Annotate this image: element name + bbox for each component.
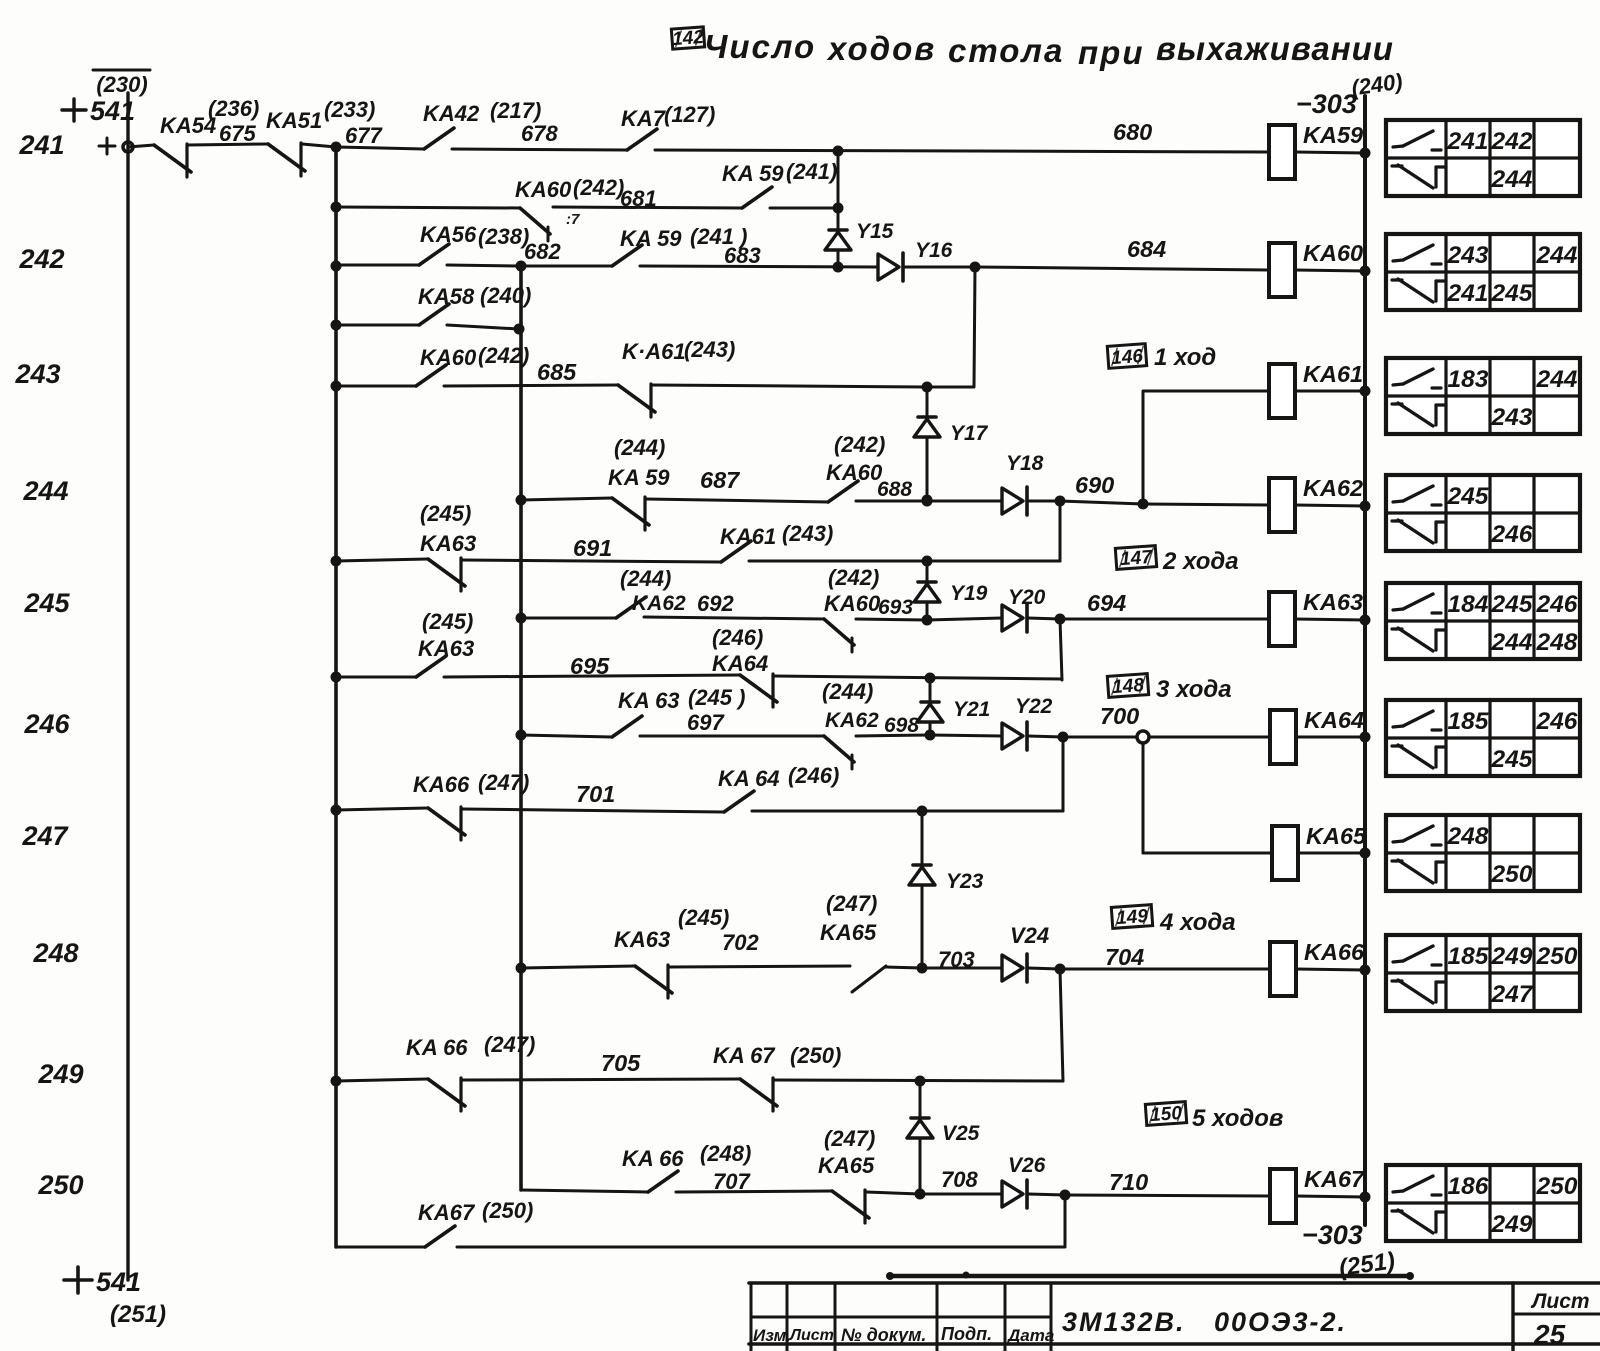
svg-text:(217): (217) bbox=[490, 98, 541, 123]
svg-text:KA62: KA62 bbox=[825, 709, 879, 732]
svg-text:703: 703 bbox=[938, 947, 975, 972]
svg-text:KA60: KA60 bbox=[824, 591, 881, 616]
svg-text:(250): (250) bbox=[790, 1043, 841, 1068]
svg-text:KA60: KA60 bbox=[826, 460, 883, 485]
svg-text:(245): (245) bbox=[422, 609, 473, 634]
svg-text:681: 681 bbox=[620, 186, 657, 211]
svg-text:KA 66: KA 66 bbox=[622, 1146, 684, 1171]
svg-text:KA 64: KA 64 bbox=[718, 766, 780, 791]
svg-text:KA61: KA61 bbox=[1303, 361, 1363, 387]
svg-text:(245): (245) bbox=[678, 905, 729, 930]
svg-text:250: 250 bbox=[1491, 861, 1533, 888]
svg-text:246: 246 bbox=[23, 709, 70, 739]
svg-text:244: 244 bbox=[1536, 242, 1578, 269]
svg-text:244: 244 bbox=[1491, 166, 1533, 193]
svg-text:708: 708 bbox=[941, 1167, 978, 1192]
svg-text:KA66: KA66 bbox=[413, 772, 470, 797]
svg-text:682: 682 bbox=[524, 239, 561, 264]
svg-text:698: 698 bbox=[884, 714, 919, 737]
svg-text:при: при bbox=[1078, 34, 1144, 71]
svg-text:675: 675 bbox=[219, 121, 256, 146]
svg-text:(244): (244) bbox=[620, 566, 671, 591]
svg-text:704: 704 bbox=[1105, 944, 1144, 970]
svg-text:702: 702 bbox=[722, 930, 759, 955]
svg-text:2 хода: 2 хода bbox=[1162, 548, 1239, 575]
svg-text:−303: −303 bbox=[1296, 89, 1357, 119]
svg-text::7: :7 bbox=[566, 211, 580, 228]
svg-text:(247): (247) bbox=[824, 1126, 875, 1151]
svg-text:(250): (250) bbox=[482, 1198, 533, 1223]
svg-text:Y23: Y23 bbox=[946, 870, 984, 893]
svg-text:242: 242 bbox=[18, 244, 64, 274]
svg-text:Y17: Y17 bbox=[950, 422, 989, 445]
svg-text:Лист: Лист bbox=[1530, 1290, 1590, 1313]
svg-text:Лист: Лист bbox=[789, 1327, 834, 1344]
svg-text:(246): (246) bbox=[712, 625, 763, 650]
svg-text:Y22: Y22 bbox=[1015, 695, 1053, 718]
svg-text:710: 710 bbox=[1109, 1169, 1148, 1195]
svg-text:250: 250 bbox=[1536, 943, 1578, 970]
svg-text:KA62: KA62 bbox=[632, 592, 686, 615]
svg-text:KA58: KA58 bbox=[418, 284, 475, 309]
svg-text:694: 694 bbox=[1087, 590, 1126, 616]
svg-text:677: 677 bbox=[345, 123, 383, 148]
svg-text:KA60: KA60 bbox=[420, 345, 477, 370]
svg-text:241: 241 bbox=[1447, 128, 1489, 155]
svg-text:(251): (251) bbox=[110, 1301, 166, 1328]
svg-text:(238): (238) bbox=[478, 224, 529, 249]
svg-text:(242): (242) bbox=[828, 565, 879, 590]
svg-text:KA63: KA63 bbox=[614, 927, 670, 952]
svg-text:KA67: KA67 bbox=[418, 1200, 476, 1225]
svg-text:V26: V26 bbox=[1008, 1154, 1046, 1177]
svg-text:248: 248 bbox=[1447, 823, 1489, 850]
svg-text:Подп.: Подп. bbox=[941, 1324, 992, 1344]
svg-text:(247): (247) bbox=[478, 770, 529, 795]
svg-text:243: 243 bbox=[1447, 242, 1489, 269]
svg-text:(246): (246) bbox=[788, 763, 839, 788]
svg-text:KA66: KA66 bbox=[1304, 939, 1365, 965]
svg-text:241: 241 bbox=[18, 130, 64, 160]
svg-text:245: 245 bbox=[1447, 483, 1489, 510]
svg-text:149: 149 bbox=[1116, 906, 1150, 929]
svg-text:(244): (244) bbox=[614, 435, 665, 460]
svg-text:KA7: KA7 bbox=[621, 106, 667, 131]
svg-text:680: 680 bbox=[1113, 119, 1152, 145]
svg-text:(245): (245) bbox=[420, 501, 471, 526]
svg-text:KA65: KA65 bbox=[1306, 823, 1367, 849]
svg-text:248: 248 bbox=[32, 938, 78, 968]
svg-text:185: 185 bbox=[1448, 708, 1489, 735]
svg-text:KA 59: KA 59 bbox=[722, 161, 784, 186]
svg-text:707: 707 bbox=[713, 1169, 751, 1194]
svg-text:249: 249 bbox=[1491, 943, 1533, 970]
svg-text:(245 ): (245 ) bbox=[688, 685, 745, 710]
svg-text:Y21: Y21 bbox=[953, 698, 990, 721]
svg-text:V24: V24 bbox=[1010, 923, 1049, 948]
svg-text:KA61: KA61 bbox=[720, 524, 776, 549]
svg-text:245: 245 bbox=[1491, 746, 1533, 773]
svg-text:KA 59: KA 59 bbox=[620, 226, 682, 251]
svg-text:стола: стола bbox=[948, 32, 1064, 69]
svg-text:(247): (247) bbox=[484, 1032, 535, 1057]
svg-text:678: 678 bbox=[521, 121, 558, 146]
svg-text:KA62: KA62 bbox=[1303, 475, 1363, 501]
svg-text:700: 700 bbox=[1100, 703, 1139, 729]
svg-text:244: 244 bbox=[1536, 366, 1578, 393]
svg-text:Дата: Дата bbox=[1006, 1326, 1054, 1345]
svg-text:241: 241 bbox=[1447, 280, 1489, 307]
svg-text:25: 25 bbox=[1533, 1319, 1566, 1350]
svg-text:выхаживании: выхаживании bbox=[1156, 30, 1394, 67]
svg-text:146: 146 bbox=[1111, 346, 1145, 369]
svg-text:246: 246 bbox=[1536, 591, 1578, 618]
svg-text:5 ходов: 5 ходов bbox=[1192, 1105, 1283, 1132]
svg-text:247: 247 bbox=[21, 821, 69, 851]
svg-text:KA64: KA64 bbox=[1304, 707, 1364, 733]
svg-text:142: 142 bbox=[671, 27, 705, 50]
svg-text:KA60: KA60 bbox=[515, 177, 572, 202]
svg-text:(242): (242) bbox=[834, 432, 885, 457]
svg-text:243: 243 bbox=[1491, 404, 1533, 431]
svg-text:249: 249 bbox=[1491, 1211, 1533, 1238]
svg-text:KA51: KA51 bbox=[266, 108, 322, 133]
svg-text:Число: Число bbox=[704, 28, 816, 65]
svg-text:245: 245 bbox=[1491, 591, 1533, 618]
svg-text:249: 249 bbox=[37, 1059, 83, 1089]
svg-text:(242): (242) bbox=[573, 175, 624, 200]
svg-text:(247): (247) bbox=[826, 891, 877, 916]
svg-text:Y19: Y19 bbox=[950, 582, 988, 605]
svg-text:687: 687 bbox=[700, 467, 740, 493]
svg-text:541: 541 bbox=[96, 1267, 141, 1297]
svg-text:245: 245 bbox=[23, 588, 70, 618]
svg-text:V25: V25 bbox=[942, 1122, 980, 1145]
svg-text:KA 67: KA 67 bbox=[713, 1043, 776, 1068]
svg-text:(241): (241) bbox=[786, 159, 837, 184]
svg-text:(240): (240) bbox=[480, 283, 531, 308]
svg-text:KA65: KA65 bbox=[818, 1153, 875, 1178]
svg-text:246: 246 bbox=[1491, 521, 1533, 548]
svg-text:693: 693 bbox=[878, 596, 913, 619]
svg-text:248: 248 bbox=[1536, 629, 1578, 656]
svg-text:244: 244 bbox=[22, 476, 68, 506]
svg-text:(243): (243) bbox=[782, 521, 833, 546]
svg-text:697: 697 bbox=[687, 710, 725, 735]
svg-text:K·A61: K·A61 bbox=[622, 339, 686, 364]
svg-text:541: 541 bbox=[90, 96, 135, 126]
svg-text:KA63: KA63 bbox=[1303, 589, 1363, 615]
svg-text:246: 246 bbox=[1536, 708, 1578, 735]
svg-text:Y18: Y18 bbox=[1006, 452, 1044, 475]
svg-text:Y20: Y20 bbox=[1008, 586, 1046, 609]
svg-text:1 ход: 1 ход bbox=[1154, 344, 1216, 371]
svg-text:Изм.: Изм. bbox=[753, 1326, 791, 1345]
svg-text:691: 691 bbox=[573, 535, 612, 561]
svg-text:Y16: Y16 bbox=[915, 239, 953, 262]
svg-text:(242): (242) bbox=[478, 343, 529, 368]
svg-text:243: 243 bbox=[14, 359, 60, 389]
svg-text:250: 250 bbox=[37, 1170, 83, 1200]
svg-text:(230): (230) bbox=[96, 72, 147, 97]
svg-text:701: 701 bbox=[576, 781, 615, 807]
svg-text:688: 688 bbox=[877, 478, 912, 501]
svg-text:KA42: KA42 bbox=[423, 101, 480, 126]
svg-text:148: 148 bbox=[1112, 675, 1146, 698]
svg-text:244: 244 bbox=[1491, 629, 1533, 656]
svg-text:KA 63: KA 63 bbox=[618, 688, 680, 713]
svg-text:245: 245 bbox=[1491, 280, 1533, 307]
svg-text:705: 705 bbox=[601, 1050, 641, 1076]
svg-text:(248): (248) bbox=[700, 1141, 751, 1166]
svg-text:ходов: ходов bbox=[826, 30, 936, 67]
svg-text:692: 692 bbox=[697, 591, 734, 616]
svg-text:KA59: KA59 bbox=[1303, 122, 1363, 148]
svg-text:KA65: KA65 bbox=[820, 920, 877, 945]
svg-text:KA67: KA67 bbox=[1304, 1166, 1365, 1192]
svg-text:KA 66: KA 66 bbox=[406, 1035, 468, 1060]
svg-text:685: 685 bbox=[537, 359, 577, 385]
svg-text:KA64: KA64 bbox=[712, 651, 768, 676]
svg-text:(233): (233) bbox=[324, 97, 375, 122]
svg-text:185: 185 bbox=[1448, 943, 1489, 970]
svg-text:KA60: KA60 bbox=[1303, 240, 1363, 266]
svg-text:№ докум.: № докум. bbox=[841, 1325, 926, 1345]
svg-text:(236): (236) bbox=[208, 96, 259, 121]
svg-text:KA 59: KA 59 bbox=[608, 465, 670, 490]
svg-text:−303: −303 bbox=[1302, 1220, 1363, 1250]
svg-text:184: 184 bbox=[1448, 591, 1489, 618]
svg-text:247: 247 bbox=[1491, 981, 1534, 1008]
svg-text:3 хода: 3 хода bbox=[1156, 676, 1232, 703]
svg-text:690: 690 bbox=[1075, 472, 1114, 498]
svg-text:3М132В.: 3М132В. bbox=[1062, 1307, 1186, 1337]
svg-text:00ОЭ3-2.: 00ОЭ3-2. bbox=[1214, 1307, 1347, 1337]
svg-text:695: 695 bbox=[570, 653, 610, 679]
svg-text:150: 150 bbox=[1150, 1103, 1184, 1126]
svg-text:4 хода: 4 хода bbox=[1159, 909, 1236, 936]
svg-text:KA63: KA63 bbox=[418, 636, 474, 661]
svg-text:(244): (244) bbox=[822, 679, 873, 704]
svg-text:684: 684 bbox=[1127, 236, 1166, 262]
svg-text:(127): (127) bbox=[664, 102, 715, 127]
svg-text:KA63: KA63 bbox=[420, 531, 476, 556]
svg-text:242: 242 bbox=[1491, 128, 1533, 155]
svg-text:250: 250 bbox=[1536, 1173, 1578, 1200]
svg-text:(243): (243) bbox=[684, 337, 735, 362]
svg-text:186: 186 bbox=[1448, 1173, 1489, 1200]
svg-text:Y15: Y15 bbox=[856, 220, 894, 243]
svg-text:183: 183 bbox=[1448, 366, 1489, 393]
svg-text:683: 683 bbox=[724, 243, 761, 268]
svg-text:147: 147 bbox=[1120, 547, 1155, 570]
svg-text:KA56: KA56 bbox=[420, 222, 477, 247]
